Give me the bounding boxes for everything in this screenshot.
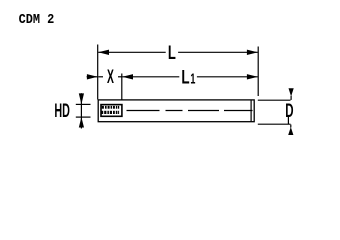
svg-text:L: L xyxy=(168,41,176,63)
svg-text:HD: HD xyxy=(54,101,70,122)
svg-text:L: L xyxy=(181,66,189,88)
svg-text:1: 1 xyxy=(190,70,195,87)
svg-text:X: X xyxy=(107,67,114,88)
svg-text:CDM 2: CDM 2 xyxy=(19,11,55,27)
svg-text:D: D xyxy=(285,101,293,122)
